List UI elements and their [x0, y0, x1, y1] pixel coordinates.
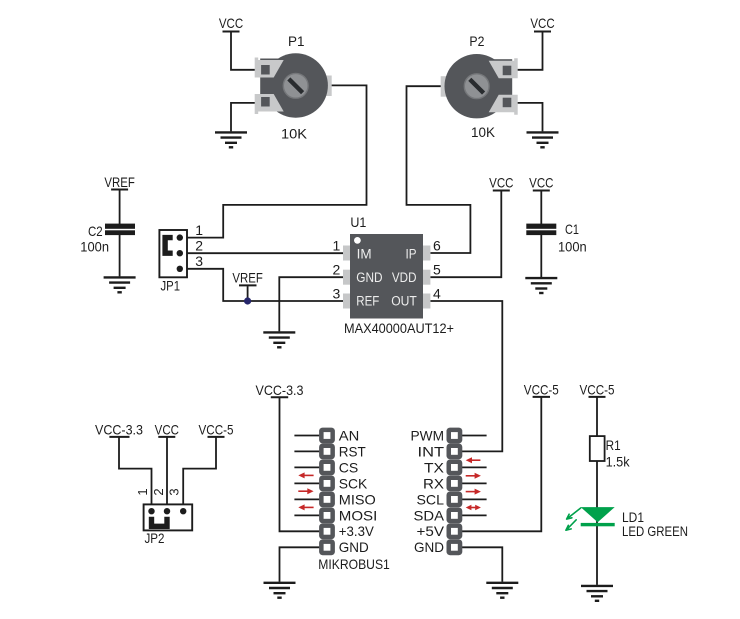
svg-text:OUT: OUT [391, 293, 417, 308]
svg-text:INT: INT [418, 443, 445, 459]
svg-text:P2: P2 [469, 33, 484, 49]
svg-text:C1: C1 [565, 221, 579, 237]
svg-text:R1: R1 [606, 437, 621, 453]
svg-text:IM: IM [357, 246, 372, 261]
svg-text:SCK: SCK [339, 475, 368, 491]
svg-text:JP1: JP1 [161, 278, 181, 294]
svg-text:1: 1 [333, 237, 341, 253]
svg-text:6: 6 [433, 237, 441, 253]
svg-text:1.5k: 1.5k [606, 454, 631, 470]
svg-text:5: 5 [433, 262, 441, 278]
svg-text:3: 3 [195, 253, 203, 269]
svg-text:100n: 100n [558, 239, 587, 255]
svg-text:VCC-5: VCC-5 [580, 382, 615, 398]
svg-text:2: 2 [333, 262, 341, 278]
svg-text:VCC-5: VCC-5 [199, 422, 234, 438]
svg-text:VCC: VCC [530, 15, 554, 31]
svg-text:VCC: VCC [489, 174, 513, 190]
svg-text:P1: P1 [288, 33, 305, 49]
svg-text:JP2: JP2 [145, 530, 165, 546]
svg-text:MIKROBUS1: MIKROBUS1 [318, 556, 390, 572]
svg-text:IP: IP [406, 246, 417, 261]
svg-text:VCC: VCC [529, 174, 553, 190]
svg-text:2: 2 [151, 488, 166, 495]
svg-text:1: 1 [135, 488, 150, 495]
svg-text:100n: 100n [80, 239, 109, 255]
svg-text:VCC: VCC [155, 422, 179, 438]
svg-text:MISO: MISO [339, 491, 376, 507]
svg-text:2: 2 [195, 237, 203, 253]
svg-text:VCC-5: VCC-5 [524, 382, 559, 398]
svg-text:1: 1 [195, 222, 203, 238]
svg-text:RST: RST [339, 443, 366, 459]
svg-text:VREF: VREF [104, 174, 134, 190]
svg-text:U1: U1 [350, 214, 366, 230]
svg-text:+5V: +5V [417, 523, 445, 539]
svg-text:CS: CS [339, 459, 359, 475]
svg-text:MAX40000AUT12+: MAX40000AUT12+ [344, 320, 454, 336]
svg-text:GND: GND [356, 270, 383, 285]
svg-text:SCL: SCL [417, 491, 445, 507]
svg-text:VREF: VREF [232, 269, 262, 285]
svg-text:+3.3V: +3.3V [339, 523, 375, 539]
svg-text:10K: 10K [281, 126, 308, 142]
svg-text:SDA: SDA [414, 507, 445, 523]
svg-text:TX: TX [424, 459, 445, 475]
svg-text:VCC: VCC [219, 15, 243, 31]
svg-text:GND: GND [414, 539, 444, 555]
svg-text:4: 4 [433, 285, 441, 301]
svg-text:MOSI: MOSI [339, 507, 378, 523]
svg-text:VDD: VDD [392, 270, 417, 285]
svg-text:REF: REF [356, 293, 379, 308]
svg-text:RX: RX [423, 475, 445, 491]
svg-text:GND: GND [339, 539, 369, 555]
svg-text:C2: C2 [88, 223, 103, 239]
svg-text:VCC-3.3: VCC-3.3 [256, 382, 304, 398]
svg-text:VCC-3.3: VCC-3.3 [95, 422, 143, 438]
svg-text:3: 3 [167, 488, 182, 495]
svg-text:PWM: PWM [411, 427, 445, 443]
svg-text:AN: AN [339, 427, 360, 443]
svg-text:10K: 10K [471, 124, 496, 140]
svg-text:LED GREEN: LED GREEN [622, 523, 688, 539]
svg-text:3: 3 [333, 285, 341, 301]
